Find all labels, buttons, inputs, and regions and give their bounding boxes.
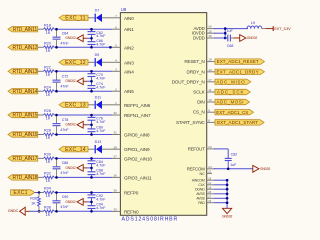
svg-text:47nF: 47nF [60, 84, 69, 88]
svg-text:1K: 1K [46, 49, 51, 53]
svg-text:32: 32 [113, 111, 117, 115]
svg-text:D9: D9 [95, 53, 100, 57]
svg-text:R22: R22 [44, 66, 51, 70]
junction GNDC/R36 [38, 210, 41, 213]
capacitor C88 [88, 168, 96, 178]
pin 15 IOVDD [192, 29, 215, 35]
resistor R20 [38, 42, 57, 54]
svg-text:GPIO1_AIN9: GPIO1_AIN9 [124, 147, 150, 152]
svg-text:30: 30 [113, 189, 117, 193]
svg-text:1K: 1K [46, 73, 51, 77]
wire DVDD to bus [214, 37, 225, 39]
port RTD_AIN16 input [8, 132, 38, 138]
svg-text:REFN1_AIN7: REFN1_AIN7 [124, 113, 151, 118]
svg-text:R24: R24 [44, 85, 51, 89]
svg-text:R28: R28 [44, 129, 51, 133]
diode D7 [95, 8, 102, 22]
svg-text:RTD_AIN15: RTD_AIN15 [13, 113, 38, 119]
pin 6 AIN1 [112, 25, 134, 32]
svg-text:GND02: GND02 [222, 214, 233, 218]
capacitor C94 [88, 202, 96, 211]
svg-text:4.7nF: 4.7nF [96, 76, 106, 80]
wire pin to ground bus [214, 184, 227, 186]
capacitor C68 [227, 29, 234, 48]
wire R28 to pin [57, 134, 113, 136]
svg-text:EXT_ADC1_START: EXT_ADC1_START [217, 120, 258, 125]
junction C82/REFCOM [227, 168, 230, 171]
svg-text:GND02: GND02 [65, 200, 76, 204]
pin 21 CLK [198, 181, 214, 187]
pin 3 AIN4 [112, 67, 134, 74]
svg-text:REFCOM: REFCOM [187, 166, 205, 171]
IC U8 ADS124S08IRHBR body [120, 7, 206, 223]
svg-text:4.7nF: 4.7nF [96, 163, 106, 167]
capacitor C74 [88, 81, 96, 91]
svg-text:1K: 1K [46, 31, 51, 35]
svg-text:ADC_MISO: ADC_MISO [216, 79, 245, 84]
svg-text:47nF: 47nF [60, 128, 69, 132]
pin 32 REFN1_AIN7 [112, 111, 151, 118]
capacitor C78 [53, 115, 61, 135]
port EXC_14 input [59, 147, 88, 153]
wire D11 to pin [102, 104, 112, 106]
pin 5 AIN2 [112, 43, 134, 50]
pin 4 AIN3 [112, 58, 134, 65]
pin 19 DGND [195, 186, 214, 192]
svg-text:4.7nF: 4.7nF [96, 198, 106, 202]
svg-text:C90: C90 [62, 195, 69, 199]
svg-text:1uF: 1uF [230, 163, 237, 167]
wire gnd to cap stack ref [83, 201, 87, 203]
svg-text:EXT_3.3V: EXT_3.3V [274, 26, 291, 31]
wire gnd to cap stack [83, 167, 87, 169]
svg-text:AIN3: AIN3 [124, 60, 134, 65]
wire R32 to pin [57, 176, 113, 178]
resistor R26 [38, 109, 57, 121]
svg-text:EXC_11: EXC_11 [65, 15, 85, 21]
pin 18 RESET_N [184, 58, 215, 64]
wire R34 to pin REFP0 [57, 192, 113, 194]
svg-text:D13: D13 [95, 140, 102, 144]
capacitor C84 [88, 158, 96, 168]
port EXC_13 input [59, 102, 88, 108]
svg-text:RTD_AIN12: RTD_AIN12 [13, 45, 38, 51]
pin 26 AVDD [194, 25, 215, 31]
svg-text:GPIO0_AIN8: GPIO0_AIN8 [124, 133, 150, 138]
port EXT_ADC1_START port [215, 120, 264, 125]
port EXC_12 input [59, 60, 88, 66]
svg-text:RTD_AIN14: RTD_AIN14 [13, 89, 38, 95]
svg-text:26: 26 [113, 174, 117, 178]
svg-text:4.7nF: 4.7nF [96, 206, 106, 210]
power port GNDC [8, 207, 25, 215]
power port GND02 group3 [65, 121, 83, 128]
port RTD_AIN18 input [8, 175, 38, 181]
svg-text:C64: C64 [62, 31, 69, 35]
wire gnd to cap stack [83, 37, 87, 39]
junction dot ground bus [226, 201, 229, 204]
svg-text:C82: C82 [231, 152, 238, 156]
capacitor C66 [88, 38, 96, 47]
svg-text:RTD_AIN18: RTD_AIN18 [13, 175, 38, 181]
wire R26 to pin [57, 114, 113, 116]
svg-text:R30: R30 [44, 153, 51, 157]
svg-text:R34: R34 [44, 187, 51, 191]
wire REFCOM to GND02 [214, 168, 253, 170]
capacitor C90 [53, 193, 61, 212]
wire IOVDD to bus [214, 32, 225, 34]
wire EXC1 to junction [35, 192, 39, 194]
svg-text:4.7nF: 4.7nF [96, 42, 106, 46]
svg-text:DRDY_N: DRDY_N [187, 69, 205, 74]
diode D11 [95, 95, 102, 109]
wire L9 to EXT_3.3V [262, 28, 266, 30]
node dots on C72 [55, 70, 58, 73]
wire REFOUT to C82 [214, 148, 228, 150]
svg-text:U8: U8 [121, 7, 127, 12]
pin 27 GPIO2_AIN10 [112, 155, 152, 162]
svg-text:DGND: DGND [195, 188, 205, 192]
svg-text:DIN: DIN [197, 100, 204, 105]
wire EXC_13 to D11 [88, 104, 95, 106]
port ADC_MISO port [215, 79, 251, 84]
svg-text:R32: R32 [44, 172, 51, 176]
svg-text:EXT_ADC1_DRDY: EXT_ADC1_DRDY [216, 69, 258, 74]
resistor R32 [38, 172, 57, 184]
svg-text:RTD_AIN16: RTD_AIN16 [13, 132, 38, 138]
wire bus to C68 [225, 37, 227, 39]
port EXT_ADC1_CS port [215, 110, 254, 115]
node dots on C86 [55, 157, 58, 160]
pin 2 AIN5 [112, 87, 134, 94]
power port GND02 ref group [65, 199, 83, 206]
svg-text:D7: D7 [95, 8, 100, 12]
wire pin to ground bus [214, 197, 227, 199]
port RTD_AIN11 input [8, 27, 38, 33]
svg-text:REFP1_AIN6: REFP1_AIN6 [124, 103, 151, 108]
pin 25 AINCOM [192, 177, 214, 183]
svg-text:ADC_SCK: ADC_SCK [217, 90, 245, 95]
junction dots cap stack [90, 70, 93, 73]
svg-text:47nF: 47nF [60, 205, 69, 209]
wire EXC_12 to D9 [88, 61, 95, 63]
wire D7 to pin [102, 17, 112, 19]
svg-text:1K: 1K [46, 93, 51, 97]
svg-text:GND02: GND02 [65, 123, 76, 127]
svg-text:31: 31 [113, 131, 117, 135]
capacitor C86 [53, 158, 61, 177]
pin 9 CS_N [193, 108, 215, 114]
svg-text:1K: 1K [46, 160, 51, 164]
wire R38 to pin REFN0 [57, 210, 113, 212]
wire R36 leads [38, 193, 40, 197]
svg-text:AIN0: AIN0 [124, 16, 134, 21]
pin 24 REFCOM [187, 165, 215, 171]
wire gnd to cap stack [83, 80, 87, 82]
diode D13 [95, 140, 102, 154]
junction dots cap stack [90, 28, 93, 31]
pin 31 GPIO0_AIN8 [112, 131, 150, 138]
svg-text:27: 27 [113, 155, 117, 159]
svg-text:D11: D11 [95, 95, 102, 99]
svg-text:AIN2: AIN2 [124, 45, 134, 50]
svg-text:4.7nF: 4.7nF [96, 172, 106, 176]
svg-text:RTD_AIN17: RTD_AIN17 [13, 156, 38, 162]
svg-text:RTD_AIN13: RTD_AIN13 [13, 69, 38, 75]
svg-text:EXC_12: EXC_12 [65, 60, 86, 66]
port EXC1 output [11, 190, 35, 196]
resistor R38 [38, 206, 57, 218]
svg-text:REFN0: REFN0 [124, 209, 139, 214]
svg-text:CS_N: CS_N [193, 110, 205, 115]
svg-text:10: 10 [208, 98, 212, 102]
wire R18 to pin [57, 28, 113, 30]
svg-text:47nF: 47nF [60, 171, 69, 175]
power port GND02 refcom [253, 165, 271, 172]
node dots on C64 [55, 28, 58, 31]
pin 20 AVSS [196, 190, 214, 196]
svg-text:28: 28 [113, 145, 117, 149]
svg-text:4.7nF: 4.7nF [96, 85, 106, 89]
svg-text:29: 29 [113, 208, 117, 212]
svg-text:EXT_ADC1_RESET: EXT_ADC1_RESET [217, 59, 259, 64]
capacitor C92 [88, 193, 96, 202]
svg-text:23: 23 [208, 145, 212, 149]
svg-text:R38: R38 [44, 206, 51, 210]
wire D13 to pin [102, 148, 112, 150]
capacitor C62 [88, 29, 96, 38]
svg-text:C78: C78 [62, 118, 69, 122]
svg-text:DOUT_DRDY_N: DOUT_DRDY_N [172, 79, 205, 84]
port ADC_MOSI port [215, 99, 250, 104]
junction dot ground bus [226, 188, 229, 191]
svg-text:GND02: GND02 [247, 36, 258, 40]
wire EXC_11 to D7 [88, 17, 95, 19]
port RTD_AIN17 input [8, 156, 38, 162]
svg-text:C72: C72 [62, 74, 69, 78]
port RTD_AIN12 input [8, 45, 38, 51]
svg-text:GND02: GND02 [65, 166, 76, 170]
wire pin to ground bus [214, 193, 227, 195]
pin 8 START_SYNC [176, 119, 215, 125]
resistor R24 [38, 85, 57, 97]
svg-text:START_SYNC: START_SYNC [176, 120, 205, 125]
svg-text:4.7nF: 4.7nF [96, 129, 106, 133]
svg-text:GPIO2_AIN10: GPIO2_AIN10 [124, 156, 152, 161]
svg-text:26: 26 [208, 25, 212, 29]
ground bus vertical [226, 180, 228, 208]
port EXT_ADC1_RESET port [215, 59, 264, 64]
capacitor C72 [53, 71, 61, 91]
svg-text:1K: 1K [46, 194, 51, 198]
svg-text:18: 18 [208, 58, 212, 62]
svg-text:CLK: CLK [198, 183, 205, 187]
svg-text:EXC_13: EXC_13 [65, 102, 86, 108]
power port GND02 group2 [65, 78, 83, 85]
svg-text:AIN1: AIN1 [124, 27, 134, 32]
svg-text:AINCOM: AINCOM [192, 179, 205, 183]
wire pin to ground bus [214, 188, 227, 190]
svg-text:11: 11 [208, 88, 211, 92]
junction dot ground bus [226, 197, 229, 200]
wire gnd to cap stack [83, 124, 87, 126]
wire R22 to pin [57, 70, 113, 72]
svg-text:1K: 1K [31, 202, 36, 206]
pin 28 GPIO1_AIN9 [112, 145, 150, 152]
capacitor C64 [53, 29, 61, 47]
svg-text:RESET_N: RESET_N [184, 59, 204, 64]
port RTD_AIN14 input [8, 89, 38, 95]
svg-text:L9: L9 [251, 21, 255, 25]
svg-text:24: 24 [208, 165, 212, 169]
svg-text:AVSS: AVSS [196, 192, 205, 196]
svg-text:15: 15 [208, 29, 212, 33]
svg-text:REFOUT: REFOUT [188, 146, 205, 151]
port ADC_SCK port [215, 89, 250, 94]
pin 26 GPIO3_AIN11 [112, 174, 152, 181]
junction dots cap stack [90, 157, 93, 160]
node on AIN2 wire [109, 46, 112, 49]
svg-text:GND02: GND02 [260, 167, 271, 171]
svg-text:47nF: 47nF [60, 41, 69, 45]
resistor R28 [38, 129, 57, 141]
resistor R18 [38, 23, 57, 35]
wire R20 to pin [57, 46, 113, 48]
port RTD_AIN15 input [8, 112, 38, 118]
wire GNDC to junction [26, 210, 30, 212]
svg-text:DVDD: DVDD [193, 36, 205, 41]
resistor R36 [30, 196, 40, 206]
pin 1 REFP1_AIN6 [112, 101, 151, 108]
power port GND02 bottom [222, 208, 233, 218]
wire AVDD to L9 [214, 28, 248, 30]
wire D9 to pin [102, 61, 112, 63]
svg-text:ADC_MOSI: ADC_MOSI [216, 100, 244, 105]
pin 11 SCLK [193, 88, 215, 94]
svg-text:13: 13 [208, 68, 212, 72]
capacitor C70 [88, 71, 96, 81]
port EXT_ADC1_DRDY port [215, 69, 264, 74]
pin 16 DVDD [193, 34, 215, 40]
capacitor C82 [225, 152, 237, 168]
svg-text:R26: R26 [44, 109, 51, 113]
node dots on C78 [55, 114, 58, 117]
svg-text:GNDC: GNDC [8, 209, 19, 213]
svg-text:EXC_14: EXC_14 [65, 147, 86, 153]
junction dot ground bus [226, 193, 229, 196]
svg-text:1K: 1K [46, 117, 51, 121]
power bus vertical [224, 29, 226, 38]
diode D9 [95, 53, 102, 67]
svg-text:1K: 1K [46, 213, 51, 217]
resistor R30 [38, 153, 57, 165]
svg-text:NC: NC [200, 172, 206, 176]
svg-text:RTD_AIN11: RTD_AIN11 [13, 27, 38, 33]
pin 29 REFN0 [112, 208, 139, 215]
power port EXT_3.3V [273, 26, 291, 31]
svg-text:C68: C68 [227, 44, 234, 48]
resistor R22 [38, 66, 57, 78]
power port GND02 group4 [65, 165, 83, 172]
junction dot ground bus [226, 179, 229, 182]
junction dots ref cap stack [90, 191, 93, 194]
wire R24 to pin [57, 90, 113, 92]
svg-text:4.7nF: 4.7nF [96, 34, 106, 38]
svg-text:1uF: 1uF [227, 29, 234, 33]
power port GND02 top right [240, 35, 258, 42]
wire pin to ground bus [214, 202, 227, 204]
pin 22 NC [200, 170, 212, 177]
svg-text:1K: 1K [46, 179, 51, 183]
junction dot ground bus [226, 184, 229, 187]
capacitor C76 [88, 115, 96, 125]
svg-text:SCLK: SCLK [193, 90, 206, 95]
svg-text:1K: 1K [46, 136, 51, 140]
wire R30 to pin [57, 157, 113, 159]
power port GND02 group1 [65, 35, 83, 42]
svg-text:REFP0: REFP0 [124, 191, 139, 196]
wire EXC_14 to D13 [88, 148, 95, 150]
pin 30 REFP0 [112, 189, 139, 196]
svg-text:GND02: GND02 [65, 79, 76, 83]
pin 10 DIN [197, 98, 215, 104]
pin 33 PAD [198, 199, 214, 205]
svg-text:EXT_ADC1_CS: EXT_ADC1_CS [216, 110, 248, 115]
svg-text:AIN4: AIN4 [124, 69, 134, 74]
svg-text:R20: R20 [44, 42, 51, 46]
pin 17 DOUT_DRDY_N [172, 78, 215, 84]
capacitor C80 [88, 125, 96, 135]
svg-text:R18: R18 [44, 23, 51, 27]
svg-text:AIN5: AIN5 [124, 89, 134, 94]
svg-text:R36: R36 [30, 196, 37, 200]
wire C68 to GND02 [233, 37, 240, 39]
svg-text:4.7nF: 4.7nF [96, 120, 106, 124]
port EXC_11 input [59, 15, 88, 21]
svg-text:C86: C86 [62, 161, 69, 165]
pin 23 REFOUT [188, 145, 215, 151]
pin 27 AVSS [196, 195, 214, 201]
node dots C90 [55, 191, 58, 194]
svg-text:17: 17 [208, 78, 212, 82]
svg-text:EXC1: EXC1 [13, 190, 27, 196]
resistor R34 [38, 187, 57, 199]
junction dots cap stack [90, 114, 93, 117]
pin 13 DRDY_N [187, 68, 215, 74]
pin 7 AIN0 [112, 14, 134, 21]
junction dots power bus [224, 27, 227, 30]
svg-text:GPIO3_AIN11: GPIO3_AIN11 [124, 175, 152, 180]
svg-text:GND02: GND02 [65, 36, 76, 40]
wire pin to ground bus [214, 179, 227, 181]
svg-text:ADS124S08IRHBR: ADS124S08IRHBR [122, 216, 179, 222]
inductor L9 [247, 21, 262, 28]
junction EXC1/R36 [38, 191, 41, 194]
svg-text:PAD: PAD [198, 201, 205, 205]
svg-text:AVSS: AVSS [196, 197, 205, 201]
port RTD_AIN13 input [8, 69, 38, 75]
svg-text:16: 16 [208, 34, 212, 38]
